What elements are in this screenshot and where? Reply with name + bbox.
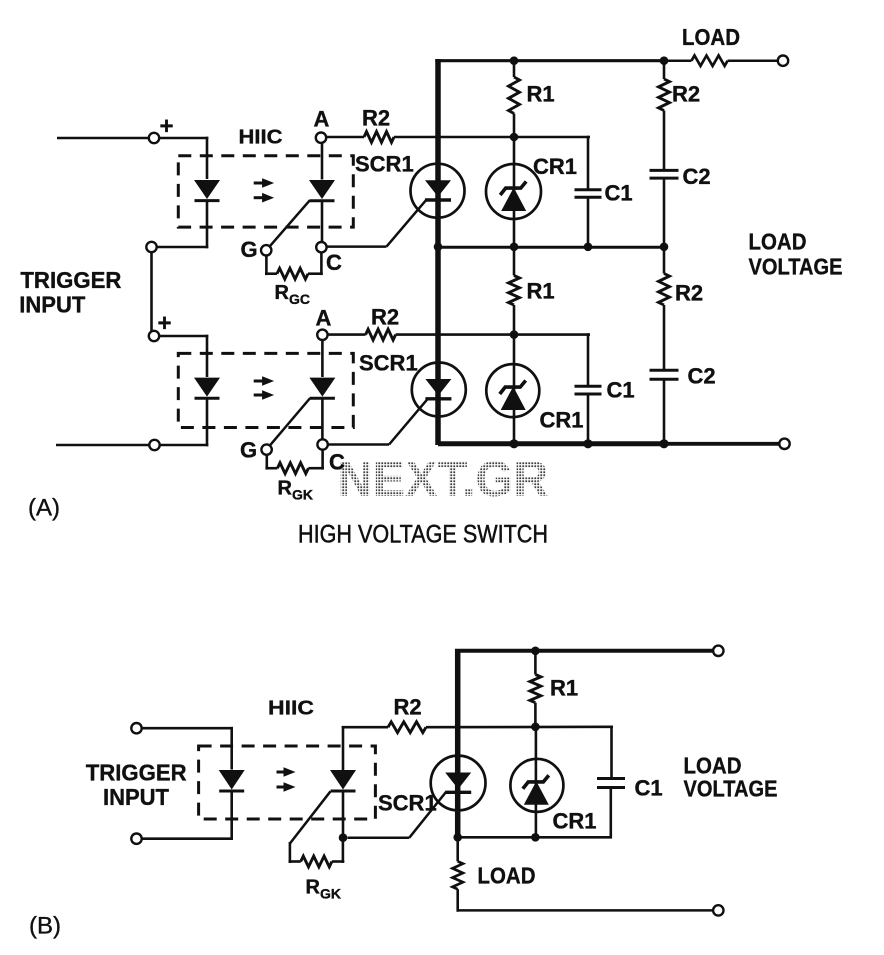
label TRIGGER INPUT (A) bbox=[19, 267, 121, 318]
coupling arrows 1 bbox=[254, 178, 274, 202]
svg-text:HIIC: HIIC bbox=[268, 698, 314, 720]
zener CR1 (unit2) bbox=[500, 381, 526, 411]
wire C2t to SCR2 gate bbox=[328, 443, 389, 446]
label C1 (B) bbox=[635, 776, 663, 801]
photo-SCR U2 anode wire bbox=[321, 340, 324, 377]
terminal T1 bbox=[149, 133, 159, 143]
node R1 top junction (B) bbox=[531, 647, 540, 656]
svg-text:A: A bbox=[314, 107, 330, 132]
node mid-C2 junction bbox=[660, 243, 669, 252]
label C2 (unit2) bbox=[688, 364, 716, 389]
photo-SCR U2 bbox=[309, 378, 335, 399]
LED D1 bbox=[194, 180, 220, 201]
svg-text:GK: GK bbox=[292, 487, 313, 503]
capacitor C2 (unit1) bbox=[650, 170, 679, 178]
SCR Q2 bbox=[425, 379, 451, 399]
svg-text:R2: R2 bbox=[394, 695, 422, 720]
label TRIGGER INPUT (B) bbox=[86, 760, 187, 811]
svg-text:R2: R2 bbox=[675, 281, 703, 306]
svg-text:(B): (B) bbox=[29, 913, 61, 940]
terminal load- (A) bbox=[779, 439, 789, 449]
label G (upper) bbox=[241, 237, 258, 262]
resistor R2 (A1 horiz) bbox=[326, 132, 590, 143]
svg-text:SCR1: SCR1 bbox=[355, 152, 414, 177]
label LOAD VOLTAGE (A) bbox=[749, 229, 843, 280]
photo-SCR U3 gate bbox=[290, 791, 331, 843]
svg-text:(A): (A) bbox=[28, 495, 60, 522]
svg-text:NEXT.GR: NEXT.GR bbox=[338, 451, 549, 507]
SCR Q2 gate lead bbox=[389, 400, 427, 445]
svg-text:TRIGGER: TRIGGER bbox=[20, 267, 121, 293]
SCR Q1 case bbox=[411, 164, 465, 218]
capacitor C1 (unit1) bbox=[575, 190, 602, 198]
terminal A1 bbox=[316, 133, 326, 143]
label (B) bbox=[29, 913, 61, 940]
coupling arrows 2 bbox=[254, 376, 274, 400]
capacitor C2 (unit2) bbox=[650, 370, 679, 379]
capacitor C1 (unit2) bbox=[575, 386, 602, 394]
LED D3 bbox=[219, 770, 245, 791]
resistor RGK (B) bbox=[289, 840, 345, 867]
label SCR1 (unit2) bbox=[359, 351, 418, 376]
svg-text:+: + bbox=[158, 310, 172, 337]
resistor R2 (A2 horiz) bbox=[328, 329, 590, 340]
wire C to SCR1 gate bbox=[327, 245, 387, 248]
photo-SCR U1 gate bbox=[269, 200, 310, 247]
capacitor C2 wire down 2 bbox=[663, 379, 666, 445]
svg-text:R1: R1 bbox=[550, 676, 578, 701]
label C2 (unit1) bbox=[683, 164, 711, 189]
svg-text:CR1: CR1 bbox=[540, 408, 584, 433]
label C (upper) bbox=[326, 250, 342, 275]
zener CR1 (unit1) bbox=[500, 182, 526, 212]
resistor R1 (unit1) bbox=[509, 58, 520, 137]
svg-text:HIIC: HIIC bbox=[239, 127, 283, 149]
terminal A2 bbox=[317, 330, 327, 340]
node R1-R2 junction 1 bbox=[510, 133, 519, 142]
svg-text:LOAD: LOAD bbox=[682, 24, 740, 50]
node bot-CR1 junction bbox=[509, 439, 518, 448]
zener CR1 (B) case bbox=[510, 759, 563, 812]
photo-SCR U2 gate bbox=[270, 398, 310, 445]
svg-text:G: G bbox=[241, 237, 258, 262]
wire LED3 cathode bbox=[142, 791, 233, 840]
wire top rail bbox=[435, 59, 691, 62]
svg-text:A: A bbox=[316, 306, 332, 331]
zener CR1 (unit2) case bbox=[486, 364, 539, 417]
label R2 (A2 horiz) bbox=[371, 305, 399, 330]
resistor LOAD (B) bbox=[453, 837, 463, 911]
svg-text:GK: GK bbox=[320, 886, 341, 902]
caption HIGH VOLTAGE SWITCH bbox=[298, 521, 548, 549]
svg-text:TRIGGER: TRIGGER bbox=[86, 760, 187, 786]
svg-text:VOLTAGE: VOLTAGE bbox=[684, 776, 778, 802]
resistor RGK (A) bbox=[265, 450, 324, 474]
svg-text:GC: GC bbox=[289, 291, 310, 307]
resistor R2 (unit1 vert) bbox=[659, 58, 670, 171]
label SCR1 (unit1) bbox=[355, 152, 414, 177]
node snubber-bus junction (B) bbox=[453, 833, 462, 842]
svg-text:VOLTAGE: VOLTAGE bbox=[749, 254, 843, 280]
resistor RGC bbox=[265, 252, 323, 279]
terminal C (lower) bbox=[317, 439, 327, 449]
label LOAD (B) bbox=[478, 863, 536, 889]
wire bottom rail right bbox=[666, 442, 780, 446]
SCR Q2 case bbox=[412, 363, 466, 417]
svg-text:C2: C2 bbox=[683, 164, 711, 189]
node bot-C1 junction bbox=[583, 439, 592, 448]
wire trigger input top bbox=[57, 137, 149, 140]
label CR1 (unit1) bbox=[533, 154, 577, 179]
wire trigger input 3 bbox=[159, 335, 208, 377]
terminal T4 bbox=[149, 440, 159, 450]
svg-text:R1: R1 bbox=[527, 279, 555, 304]
wire U3 cathode bbox=[342, 791, 345, 838]
wire B input top bbox=[142, 727, 233, 770]
label LOAD (A top) bbox=[682, 24, 740, 50]
SCR Q1 gate lead bbox=[387, 200, 427, 246]
zener CR1 (unit2) wire bbox=[513, 335, 516, 445]
wire T1 to LED1 bbox=[159, 137, 208, 179]
label R2 (B) bbox=[394, 695, 422, 720]
label RGK (A) bbox=[278, 478, 314, 503]
label C1 (unit1) bbox=[605, 181, 633, 206]
svg-text:SCR1: SCR1 bbox=[359, 351, 418, 376]
capacitor C1 (unit1) wires bbox=[587, 136, 590, 248]
optocoupler HIIC1 box bbox=[178, 156, 353, 227]
resistor R2 (B) bbox=[342, 722, 613, 733]
label RGC bbox=[275, 282, 311, 307]
capacitor C1 (B) bbox=[597, 779, 625, 788]
svg-text:R: R bbox=[278, 478, 293, 500]
label R2 (A1 horiz) bbox=[362, 106, 390, 131]
svg-text:CR1: CR1 bbox=[553, 809, 597, 834]
SCR Q3 bbox=[445, 773, 471, 793]
svg-text:R2: R2 bbox=[371, 305, 399, 330]
wire SCR bus (thick) bbox=[435, 59, 441, 445]
svg-text:R1: R1 bbox=[527, 82, 555, 107]
svg-text:C1: C1 bbox=[605, 181, 633, 206]
node A (lower) bbox=[316, 306, 332, 331]
wire SCR bus B (thick) bbox=[455, 649, 461, 837]
svg-text:SCR1: SCR1 bbox=[378, 791, 437, 816]
wire U1 cathode to C1t bbox=[321, 201, 324, 242]
watermark NEXT.GR bbox=[338, 451, 549, 507]
wire LED2 cathode to T4 bbox=[160, 397, 208, 446]
svg-text:LOAD: LOAD bbox=[749, 229, 807, 255]
terminal T3 bbox=[149, 331, 159, 341]
terminal B-T2 bbox=[131, 834, 141, 844]
node R1 bottom junction (B) bbox=[531, 723, 540, 732]
node RGK junction (B) bbox=[339, 833, 348, 842]
label SCR1 (B) bbox=[378, 791, 437, 816]
label R2 (unit1 vert) bbox=[672, 82, 700, 107]
resistor R1 (unit2) bbox=[509, 245, 520, 336]
label R1 (unit1) bbox=[527, 82, 555, 107]
svg-text:INPUT: INPUT bbox=[103, 784, 169, 810]
svg-text:+: + bbox=[160, 113, 174, 140]
resistor LOAD (A) bbox=[692, 56, 728, 66]
LED D2 bbox=[194, 378, 220, 399]
terminal load+ (A) bbox=[778, 56, 788, 66]
wire top rail B bbox=[455, 649, 713, 653]
node CR1 bottom junction (B) bbox=[531, 833, 540, 842]
label C1 (unit2) bbox=[607, 378, 635, 403]
svg-text:R: R bbox=[275, 282, 290, 304]
wire gate run (B) bbox=[348, 836, 410, 839]
label HIIC (A) bbox=[239, 127, 283, 149]
zener CR1 (B) wire bbox=[535, 727, 538, 839]
label CR1 (B) bbox=[553, 809, 597, 834]
node bot-C2 junction bbox=[659, 439, 668, 448]
photo-SCR U3 bbox=[330, 770, 356, 791]
SCR Q1 bbox=[425, 180, 451, 200]
SCR Q3 gate lead bbox=[409, 792, 446, 838]
capacitor C2 wire down 1 bbox=[663, 178, 666, 248]
terminal T2 bbox=[146, 242, 156, 252]
label RGK (B) bbox=[306, 877, 342, 902]
svg-text:G: G bbox=[240, 438, 257, 463]
svg-text:R2: R2 bbox=[362, 106, 390, 131]
terminal load+ (B) bbox=[713, 646, 723, 656]
capacitor C1 (B) wires bbox=[609, 726, 612, 839]
svg-text:LOAD: LOAD bbox=[478, 863, 536, 889]
node R1 top junction 1 bbox=[510, 56, 519, 65]
svg-text:R2: R2 bbox=[672, 82, 700, 107]
coupling arrows B bbox=[277, 767, 296, 792]
terminal load- (B) bbox=[713, 905, 723, 915]
label (A) bbox=[28, 495, 60, 522]
label G (lower) bbox=[240, 438, 257, 463]
node mid-CR1 junction bbox=[510, 243, 519, 252]
optocoupler HIIC2 box bbox=[178, 353, 353, 427]
svg-text:CR1: CR1 bbox=[533, 154, 577, 179]
terminal B-T1 bbox=[131, 723, 141, 733]
terminal C (upper) bbox=[316, 242, 326, 252]
photo-SCR U1 anode wire bbox=[321, 143, 324, 180]
svg-text:INPUT: INPUT bbox=[19, 292, 85, 318]
SCR Q3 case bbox=[431, 756, 486, 811]
wire LED1 cathode to T2 bbox=[157, 200, 208, 249]
photo-SCR U3 anode wire bbox=[342, 726, 345, 771]
resistor R2 (unit2 vert) bbox=[659, 245, 670, 371]
wire trigger input bottom bbox=[56, 444, 150, 447]
svg-text:C2: C2 bbox=[688, 364, 716, 389]
terminal G (upper) bbox=[261, 245, 271, 255]
zener CR1 (unit1) wire bbox=[513, 137, 516, 248]
node mid-C1 junction bbox=[584, 243, 593, 252]
node A (upper) bbox=[314, 107, 330, 132]
wire U2 cathode to C2t bbox=[321, 398, 324, 439]
label R2 (unit2 vert) bbox=[675, 281, 703, 306]
wire bottom rail thick bbox=[438, 441, 666, 446]
zener CR1 (unit1) case bbox=[486, 164, 541, 219]
wire mid rail bbox=[438, 246, 664, 249]
label C (lower) bbox=[329, 450, 345, 475]
node R1-R2 junction 2 bbox=[510, 330, 519, 339]
label R1 (B) bbox=[550, 676, 578, 701]
label R1 (unit2) bbox=[527, 279, 555, 304]
svg-text:C: C bbox=[329, 450, 345, 475]
svg-text:C1: C1 bbox=[607, 378, 635, 403]
svg-text:R: R bbox=[306, 877, 321, 899]
wire LOAD to terminal bbox=[728, 59, 778, 62]
svg-text:C1: C1 bbox=[635, 776, 663, 801]
svg-text:C: C bbox=[326, 250, 342, 275]
zener CR1 (B) bbox=[523, 775, 549, 805]
label LOAD VOLTAGE (B) bbox=[684, 753, 778, 802]
node mid-bus junction bbox=[434, 243, 443, 252]
wire T2-T3 link bbox=[150, 252, 153, 332]
svg-text:HIGH VOLTAGE SWITCH: HIGH VOLTAGE SWITCH bbox=[298, 521, 548, 549]
node R2 top junction 1 bbox=[660, 56, 669, 65]
photo-SCR U1 bbox=[309, 180, 335, 201]
terminal G (lower) bbox=[261, 444, 271, 454]
capacitor C1 (unit2) wires bbox=[587, 333, 590, 445]
wire bottom rail B bbox=[457, 909, 714, 912]
node + (lower) bbox=[158, 310, 172, 337]
resistor R1 (B) bbox=[530, 649, 541, 729]
label HIIC (B) bbox=[268, 698, 314, 720]
label CR1 (unit2) bbox=[540, 408, 584, 433]
wire snubber bottom (B) bbox=[458, 836, 612, 839]
node + (upper) bbox=[160, 113, 174, 140]
optocoupler HIIC box (B) bbox=[199, 746, 376, 819]
